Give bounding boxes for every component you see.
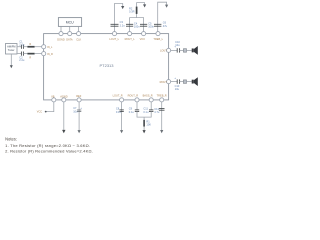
svg-text:Notes:: Notes: bbox=[5, 137, 17, 142]
ground arrow R1 bbox=[143, 130, 146, 133]
svg-text:Tuner: Tuner bbox=[8, 48, 15, 52]
svg-text:2.2u: 2.2u bbox=[19, 42, 25, 46]
svg-text:100n: 100n bbox=[134, 24, 140, 28]
svg-text:10K: 10K bbox=[146, 122, 151, 126]
wire ROUT to cap bbox=[171, 81, 178, 83]
svg-text:2.2u: 2.2u bbox=[19, 58, 25, 62]
top pin VCC bbox=[140, 32, 146, 41]
svg-text:+: + bbox=[174, 45, 176, 49]
wire R to IN_R bbox=[35, 53, 42, 55]
resistor R2 bbox=[129, 6, 137, 14]
MCU box bbox=[58, 18, 81, 27]
wire R1 down bbox=[143, 127, 145, 131]
wire BASS_R down bbox=[150, 102, 152, 110]
svg-text:0.3R: 0.3R bbox=[129, 10, 135, 14]
svg-text:AGND: AGND bbox=[60, 94, 68, 98]
wire MCU to DGND pin bbox=[60, 26, 62, 31]
svg-text:MCU: MCU bbox=[66, 21, 74, 25]
wire LOUT_R down bbox=[121, 102, 123, 130]
svg-text:BASS_R: BASS_R bbox=[143, 94, 153, 98]
arrow supply right bbox=[165, 5, 168, 8]
svg-text:TREB_R: TREB_R bbox=[157, 94, 167, 98]
arrow VCC supply bbox=[143, 4, 146, 7]
svg-text:LOUT_L: LOUT_L bbox=[109, 37, 119, 41]
terminal 8V bbox=[37, 111, 47, 114]
wire join to R1 bbox=[143, 117, 145, 120]
svg-text:10u: 10u bbox=[73, 109, 78, 113]
capacitor C12 4.7u bbox=[154, 107, 164, 114]
right pin ROUT bbox=[160, 80, 171, 84]
ground arrow AGND bbox=[62, 130, 65, 133]
wire tuner R out bbox=[17, 53, 21, 55]
svg-text:VCC: VCC bbox=[37, 111, 42, 114]
wire U-join caps bbox=[137, 112, 151, 118]
top pin LOUT_L bbox=[109, 32, 119, 41]
capacitor C11 0.1u bbox=[143, 107, 153, 114]
wire connector to speaker bbox=[187, 49, 192, 51]
svg-text:AM/FM: AM/FM bbox=[7, 44, 15, 48]
svg-text:47u: 47u bbox=[163, 24, 168, 28]
svg-text:LOUT: LOUT bbox=[160, 49, 167, 53]
bottom pin LOUT_R bbox=[113, 94, 124, 102]
svg-text:DGND: DGND bbox=[57, 38, 65, 42]
svg-text:0.1u: 0.1u bbox=[143, 110, 149, 114]
capacitor C2 2.2u bbox=[19, 52, 25, 63]
connector J2 bbox=[183, 80, 186, 84]
wire R to IN_L bbox=[35, 46, 42, 48]
ground arrow REF bbox=[78, 130, 81, 133]
svg-text:4.7u: 4.7u bbox=[154, 110, 160, 114]
bottom pin ROUT_R bbox=[128, 94, 139, 102]
bottom pin AGND bbox=[60, 94, 68, 102]
resistor R (top) bbox=[27, 42, 34, 48]
speaker SP2 bbox=[192, 77, 198, 86]
svg-text:TREB_L: TREB_L bbox=[153, 37, 163, 41]
bottom pin TREB_R bbox=[157, 94, 167, 102]
top pin TREB_L bbox=[153, 32, 163, 41]
svg-text:VCC: VCC bbox=[140, 37, 146, 41]
capacitor C1 2.2u bbox=[19, 40, 25, 49]
wire MCU to DATA pin bbox=[69, 26, 71, 31]
svg-text:R: R bbox=[29, 42, 31, 46]
wire tuner L out bbox=[17, 46, 21, 48]
bottom pin REF bbox=[76, 94, 82, 102]
svg-text:CLK: CLK bbox=[76, 38, 81, 42]
wire cap to R top bbox=[23, 46, 27, 48]
arrow out front-left bbox=[121, 6, 124, 9]
wire VB to 8V terminal bbox=[46, 102, 54, 112]
bottom pin BASS_R bbox=[143, 94, 154, 102]
wire MCU to CLK pin bbox=[78, 26, 80, 31]
svg-text:0.1u: 0.1u bbox=[116, 110, 122, 114]
bottom pin VB bbox=[51, 94, 56, 102]
svg-text:2.2u: 2.2u bbox=[120, 24, 126, 28]
wire cap to speaker R bbox=[180, 81, 184, 83]
wire cap to speaker L bbox=[180, 49, 184, 51]
top pin DATA bbox=[66, 32, 73, 42]
capacitor C7 10u (REF) bbox=[73, 106, 82, 113]
wire resistor branch bbox=[137, 3, 145, 18]
capacitor C10 10u bbox=[174, 40, 180, 52]
wire riser pin LOUT_L up bbox=[115, 4, 123, 32]
wire riser pin TREB_L up bbox=[158, 2, 167, 31]
svg-text:C3: C3 bbox=[120, 20, 124, 24]
wire LOUT to cap bbox=[171, 49, 178, 51]
ground arrow LOUT_R bbox=[120, 130, 123, 133]
speaker SP1 bbox=[192, 46, 198, 55]
capacitor C8 0.1u bbox=[116, 107, 124, 114]
svg-text:ROUT_R: ROUT_R bbox=[128, 94, 139, 98]
svg-text:1. The Resistor (R) range=2.0K: 1. The Resistor (R) range=2.0KΩ ~ 3.6KΩ. bbox=[5, 143, 90, 148]
svg-text:REF: REF bbox=[76, 94, 82, 98]
svg-text:DATA: DATA bbox=[66, 38, 73, 42]
top pin DGND bbox=[57, 32, 65, 42]
wire REF down bbox=[78, 102, 80, 130]
AM/FM tuner box bbox=[6, 44, 18, 55]
svg-text:100n: 100n bbox=[148, 24, 154, 28]
left pin IN_R bbox=[42, 52, 53, 56]
resistor R1 bbox=[143, 119, 151, 126]
wire AGND down bbox=[63, 102, 65, 130]
svg-text:R: R bbox=[29, 55, 31, 59]
svg-text:VB: VB bbox=[51, 94, 55, 98]
capacitor C5 100n bbox=[140, 21, 155, 28]
svg-text:10u: 10u bbox=[175, 43, 180, 47]
right pin LOUT bbox=[160, 48, 171, 52]
wire cap to R bottom bbox=[23, 53, 27, 55]
wire connector to speaker bbox=[187, 81, 192, 83]
left pin IN_L bbox=[42, 45, 53, 49]
capacitor C13 10u bbox=[174, 76, 180, 91]
svg-text:0.1u: 0.1u bbox=[129, 110, 135, 114]
wire VCC rail joining pins bbox=[130, 18, 144, 32]
wire TREB_R down bbox=[161, 102, 163, 130]
svg-text:ROUT: ROUT bbox=[160, 80, 168, 84]
svg-text:ROUT_L: ROUT_L bbox=[125, 37, 136, 41]
top pin CLK bbox=[76, 32, 81, 42]
svg-text:10u: 10u bbox=[175, 87, 180, 91]
svg-text:IN_R: IN_R bbox=[47, 52, 53, 56]
capacitor C9 0.1u bbox=[129, 107, 139, 114]
svg-text:IN_L: IN_L bbox=[47, 45, 53, 49]
svg-text:+: + bbox=[174, 76, 176, 80]
resistor R (bottom) bbox=[27, 53, 34, 60]
wire ROUT_R down bbox=[136, 102, 138, 110]
svg-text:2. Resistor (R) Recommended Va: 2. Resistor (R) Recommended Value=2.4KΩ. bbox=[5, 148, 93, 153]
connector J1 bbox=[183, 49, 186, 53]
notes text bbox=[5, 137, 93, 154]
svg-text:PT2313: PT2313 bbox=[100, 63, 115, 68]
IC U1 PT2313 body bbox=[44, 34, 169, 100]
top pin ROUT_L bbox=[125, 32, 136, 41]
svg-text:LOUT_R: LOUT_R bbox=[113, 94, 123, 98]
capacitor C3 2.2u bbox=[111, 20, 126, 27]
ground arrow tuner bbox=[10, 54, 13, 68]
capacitor C6 470u bbox=[154, 21, 168, 28]
capacitor C4 100n bbox=[126, 21, 140, 28]
ground arrow TREB_R bbox=[160, 130, 163, 133]
